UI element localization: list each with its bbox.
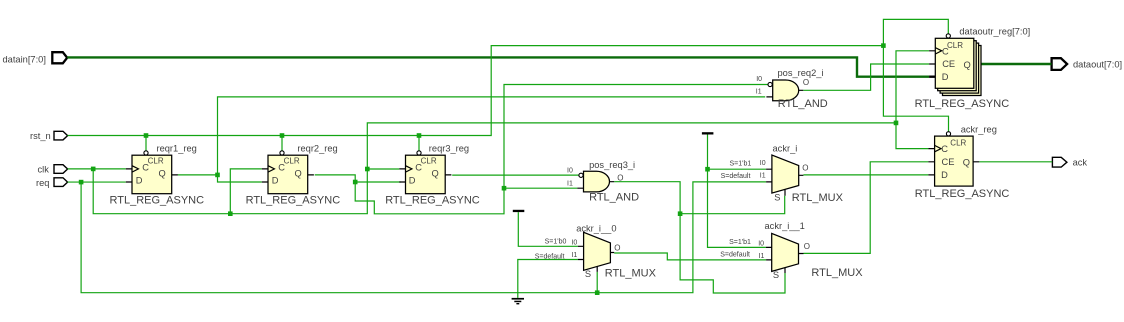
register reqr1_reg — [110, 144, 205, 207]
svg-text:CLR: CLR — [950, 139, 966, 148]
svg-text:I1: I1 — [571, 252, 577, 259]
svg-text:I0: I0 — [760, 160, 766, 167]
svg-text:CLR: CLR — [421, 156, 437, 165]
svg-text:RTL_REG_ASYNC: RTL_REG_ASYNC — [915, 98, 1010, 110]
svg-text:reqr1_reg: reqr1_reg — [157, 144, 197, 154]
svg-text:O: O — [617, 173, 623, 182]
svg-text:RTL_REG_ASYNC: RTL_REG_ASYNC — [110, 195, 205, 207]
svg-text:ackr_reg: ackr_reg — [961, 124, 997, 134]
svg-text:reqr3_reg: reqr3_reg — [429, 144, 469, 154]
node req junctions — [79, 180, 84, 185]
svg-text:C: C — [941, 144, 948, 154]
svg-text:C: C — [942, 46, 949, 56]
node rst junctions — [144, 133, 149, 138]
svg-text:I0: I0 — [756, 76, 762, 83]
svg-text:RTL_AND: RTL_AND — [778, 98, 828, 110]
power const1 for ackr_i I0 and ackr_i__1 I0 — [702, 132, 714, 134]
wire pos_req3_i O to ackr_i S and ackr_i__1 S — [614, 182, 785, 293]
svg-text:S=1'b0: S=1'b0 — [545, 239, 567, 246]
svg-text:clk: clk — [38, 165, 50, 175]
mux ackr_i — [721, 144, 844, 205]
svg-text:CLR: CLR — [148, 156, 164, 165]
svg-text:C: C — [278, 162, 285, 172]
svg-text:S=1'b1: S=1'b1 — [730, 160, 752, 167]
wire clk trunk down and across to right registers — [93, 123, 896, 214]
wire req to ackr_i__0 S — [596, 272, 598, 293]
svg-text:O: O — [614, 243, 620, 252]
svg-text:I0: I0 — [758, 240, 764, 247]
svg-text:S: S — [774, 192, 780, 202]
svg-text:D: D — [941, 170, 948, 180]
wire clk to ackr C — [896, 123, 928, 149]
register dataoutr_reg[7:0] (stacked) — [915, 27, 1031, 110]
node reqr1 Q junction — [215, 173, 220, 178]
wire ackr_i O to ackr_reg D — [803, 174, 928, 176]
svg-text:ackr_i: ackr_i — [773, 144, 798, 154]
svg-text:O: O — [804, 242, 810, 251]
svg-text:RTL_REG_ASYNC: RTL_REG_ASYNC — [385, 195, 480, 207]
svg-text:ack: ack — [1073, 157, 1088, 167]
svg-text:I1: I1 — [759, 253, 765, 260]
wire clk to dataoutr C — [896, 51, 929, 123]
and-gate pos_req3_i — [567, 160, 639, 204]
svg-text:D: D — [942, 72, 949, 82]
svg-text:D: D — [272, 176, 279, 186]
svg-text:CLR: CLR — [947, 41, 963, 50]
wire rst to reqr3 CLR — [418, 136, 420, 151]
svg-text:CLR: CLR — [284, 156, 300, 165]
wire reqr3 Q to pos_req3_i I0 — [452, 174, 579, 176]
node clk junctions — [91, 167, 96, 172]
register ackr_reg — [915, 124, 1010, 200]
svg-text:Q: Q — [964, 60, 971, 70]
svg-text:S=default: S=default — [721, 173, 751, 180]
svg-text:pos_req2_i: pos_req2_i — [778, 68, 824, 78]
svg-text:RTL_REG_ASYNC: RTL_REG_ASYNC — [246, 195, 341, 207]
svg-text:reqr2_reg: reqr2_reg — [297, 144, 337, 154]
and-gate pos_req2_i — [756, 68, 828, 110]
register reqr2_reg — [246, 144, 341, 207]
svg-text:Q: Q — [963, 158, 970, 168]
port datain[7:0] — [52, 52, 67, 63]
register reqr3_reg — [385, 144, 480, 207]
svg-text:req: req — [36, 178, 49, 188]
svg-text:I0: I0 — [571, 240, 577, 247]
port rst_n — [54, 131, 68, 140]
wire dataout bus from dataoutr_reg Q — [981, 63, 1051, 65]
svg-text:ackr_i__1: ackr_i__1 — [765, 221, 805, 231]
svg-text:I1: I1 — [567, 180, 573, 187]
svg-text:RTL_MUX: RTL_MUX — [792, 192, 844, 204]
wire ackr_reg Q to ack port — [979, 161, 1052, 163]
svg-text:S=default: S=default — [720, 252, 750, 259]
wire rst to reqr1 CLR — [145, 136, 147, 151]
svg-text:RTL_MUX: RTL_MUX — [811, 267, 863, 279]
svg-text:C: C — [415, 162, 422, 172]
wire rst_n net — [68, 46, 884, 136]
wire clk branch to reqr3 C — [367, 168, 399, 170]
port dataout[7:0] — [1052, 58, 1068, 70]
svg-text:ackr_i__0: ackr_i__0 — [576, 223, 616, 233]
svg-text:S: S — [773, 270, 779, 280]
svg-text:rst_n: rst_n — [30, 131, 51, 141]
wire rst to reqr2 CLR — [281, 136, 283, 151]
svg-text:pos_req3_i: pos_req3_i — [589, 160, 635, 170]
svg-text:S=1'b1: S=1'b1 — [729, 239, 751, 246]
svg-text:RTL_REG_ASYNC: RTL_REG_ASYNC — [915, 188, 1010, 200]
wire ackr_i__0 O to ackr_i__1 I1 — [614, 253, 766, 260]
svg-text:C: C — [142, 162, 149, 172]
wire reqr1 Q up to pos_req2_i I1 — [218, 97, 766, 175]
svg-text:dataout[7:0]: dataout[7:0] — [1073, 60, 1122, 70]
svg-text:RTL_MUX: RTL_MUX — [605, 267, 657, 279]
wire datain bus to dataoutr_reg D — [67, 57, 929, 76]
wire reqr1 Q to reqr2 D — [178, 175, 262, 182]
wire rst to ackr CLR — [883, 46, 948, 132]
wire clk riser to reqr2 C — [230, 169, 261, 214]
svg-text:Q: Q — [432, 168, 439, 178]
svg-text:D: D — [136, 176, 143, 186]
wire rst to dataoutr CLR — [883, 19, 948, 45]
wire clk to reqr1 C — [68, 168, 126, 170]
wire req to reqr1 D — [68, 181, 126, 183]
svg-text:RTL_AND: RTL_AND — [589, 191, 639, 203]
wire req rail to ackr_i I1 — [81, 182, 766, 293]
svg-text:Q: Q — [295, 168, 302, 178]
svg-text:O: O — [803, 78, 809, 87]
node reqr2 Q junctions — [353, 180, 358, 185]
port ack — [1052, 157, 1067, 167]
port clk — [54, 165, 68, 174]
svg-text:I1: I1 — [756, 89, 762, 96]
svg-text:datain[7:0]: datain[7:0] — [3, 54, 46, 64]
wire reqr2 Q to reqr3 D — [315, 175, 401, 182]
wire reqr2 Q down-around to pos_req2_i I0 — [355, 85, 768, 214]
mux ackr_i__0 — [535, 223, 657, 279]
svg-text:Q: Q — [159, 168, 166, 178]
svg-text:S=default: S=default — [535, 254, 565, 261]
svg-text:CE: CE — [942, 157, 955, 167]
ground for ackr_i__0 I1 — [518, 260, 578, 298]
svg-text:dataoutr_reg[7:0]: dataoutr_reg[7:0] — [959, 27, 1030, 37]
svg-text:S: S — [585, 269, 591, 279]
wire reqr2 Q branch to pos_req3_i I1 — [504, 187, 577, 189]
wire pos_req2_i O to dataoutr CE — [803, 64, 929, 90]
svg-text:I1: I1 — [760, 172, 766, 179]
mux ackr_i__1 — [720, 221, 863, 280]
svg-text:I0: I0 — [567, 167, 573, 174]
svg-text:O: O — [802, 164, 808, 173]
svg-text:CE: CE — [942, 59, 955, 69]
wire ackr_i__1 O to ackr_reg CE — [804, 162, 929, 254]
power const1 for ackr_i__0 I0 — [513, 210, 525, 212]
port req — [54, 178, 68, 187]
svg-text:D: D — [409, 176, 416, 186]
